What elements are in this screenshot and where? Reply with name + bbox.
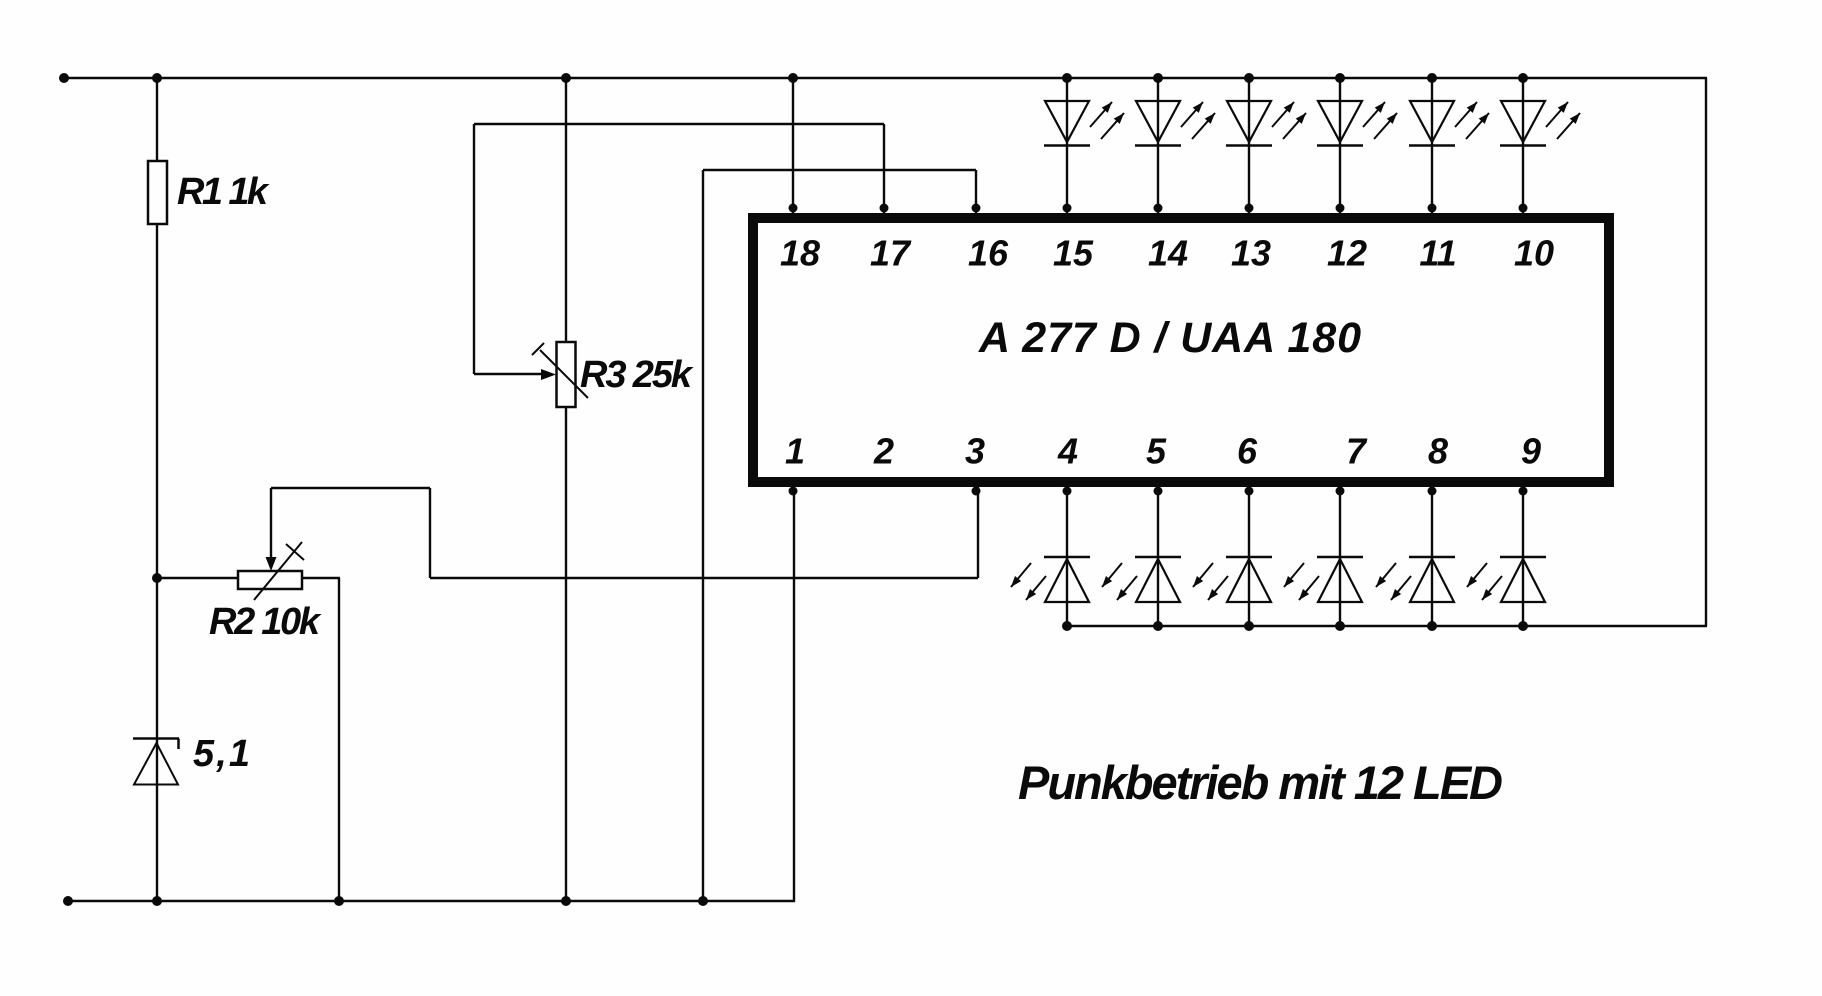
svg-text:4: 4 (1057, 431, 1078, 472)
svg-text:16: 16 (968, 233, 1009, 274)
svg-text:Punkbetrieb mit 12 LED: Punkbetrieb mit 12 LED (1018, 756, 1503, 809)
svg-text:1: 1 (785, 431, 805, 472)
svg-text:9: 9 (1521, 431, 1541, 472)
svg-text:8: 8 (1428, 431, 1448, 472)
svg-text:13: 13 (1231, 233, 1271, 274)
svg-text:R2 10k: R2 10k (209, 601, 322, 643)
svg-text:17: 17 (870, 233, 912, 274)
svg-text:15: 15 (1053, 233, 1094, 274)
svg-text:18: 18 (780, 233, 820, 274)
svg-text:10: 10 (1514, 233, 1554, 274)
svg-text:R1 1k: R1 1k (177, 171, 270, 213)
svg-text:6: 6 (1237, 431, 1258, 472)
svg-text:A 277 D / UAA 180: A 277 D / UAA 180 (978, 314, 1361, 362)
svg-text:R3 25k: R3 25k (580, 354, 694, 396)
svg-text:12: 12 (1327, 233, 1367, 274)
svg-text:5: 5 (1146, 431, 1167, 472)
svg-text:3: 3 (965, 431, 985, 472)
svg-text:5,1: 5,1 (193, 733, 250, 775)
svg-text:11: 11 (1419, 233, 1456, 274)
svg-text:2: 2 (873, 431, 894, 472)
svg-text:7: 7 (1346, 431, 1368, 472)
svg-text:14: 14 (1148, 233, 1188, 274)
